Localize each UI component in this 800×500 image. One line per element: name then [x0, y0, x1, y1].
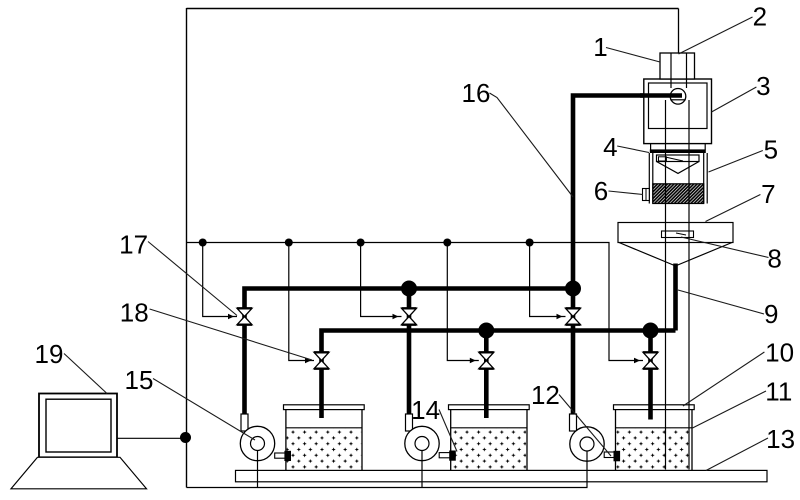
wire: control spur to valve V1 — [203, 243, 237, 317]
pump 15 (P1) — [240, 414, 291, 488]
svg-text:12: 12 — [531, 380, 560, 410]
pipe 16: riser and feed to nozzle — [571, 93, 678, 288]
svg-text:14: 14 — [411, 395, 440, 425]
wire: control spur to valve V5 — [447, 243, 479, 361]
leader 4 — [617, 146, 649, 153]
leader 16 — [490, 93, 574, 197]
node: pipe junction dots — [401, 281, 659, 339]
leader 13 — [706, 438, 768, 471]
pipe: branch to tank T3 — [648, 331, 653, 420]
valve V2 — [402, 308, 417, 324]
node: bus junction dots — [199, 239, 534, 247]
tab of item 6 — [643, 189, 650, 201]
valve V3 — [566, 308, 581, 324]
porous block 6 (hatched) — [653, 184, 704, 204]
stand column left — [665, 100, 667, 470]
wire: control spur to valve V4 — [289, 243, 314, 361]
svg-text:2: 2 — [753, 1, 767, 31]
pipe: branch to pump P2 — [407, 289, 412, 417]
TABLE 7 with slot 8 and funnel — [618, 223, 733, 243]
housing 3 outer — [644, 79, 712, 144]
block 1 (top cap) — [660, 53, 695, 79]
svg-text:16: 16 — [462, 78, 491, 108]
leader 9 — [678, 290, 764, 314]
svg-text:15: 15 — [125, 365, 154, 395]
svg-text:7: 7 — [761, 179, 775, 209]
leader 7 — [706, 195, 761, 222]
rod 2 guide lines — [671, 53, 687, 88]
cone under plate 4 — [657, 162, 700, 174]
tank T2 — [449, 405, 530, 471]
frame: left border — [186, 8, 188, 488]
svg-text:9: 9 — [764, 299, 778, 329]
svg-text:11: 11 — [765, 377, 792, 407]
leader 8 — [681, 237, 769, 258]
leader 12 — [559, 395, 611, 457]
svg-text:5: 5 — [764, 134, 778, 164]
housing 3 inner — [649, 83, 708, 129]
wire: control spur to valve V2 — [361, 243, 402, 317]
plate 4 — [657, 155, 700, 162]
wire: valve control bus — [187, 243, 644, 361]
svg-text:18: 18 — [120, 298, 149, 328]
valve V6 — [643, 352, 658, 368]
pipe: return manifold with branch to tank T1 — [322, 331, 676, 419]
svg-text:6: 6 — [594, 176, 608, 206]
tank T3 (items 10,11) — [614, 405, 695, 471]
svg-text:4: 4 — [603, 132, 617, 162]
leader 6 — [609, 191, 644, 195]
wire: rod from top border to hoist block — [678, 9, 680, 58]
pipe: suction manifold with branch to pump 15 — [245, 289, 574, 417]
vessel 5 lid band — [650, 149, 706, 153]
BASEPLATE 13 — [236, 470, 768, 481]
funnel cone — [619, 243, 732, 266]
pipe: feed tip entering nozzle — [640, 93, 682, 98]
pump 12 (P3) — [570, 414, 621, 488]
tank 10/11 group T1: lid — [284, 405, 365, 471]
vessel 5 walls — [649, 153, 707, 204]
leader 19 — [64, 354, 107, 394]
node: dot on left border — [180, 432, 191, 443]
COMPUTER 19 — [11, 394, 147, 489]
leader 3 — [712, 87, 757, 112]
leader 17 — [148, 242, 237, 316]
valve 17 (V1) — [237, 308, 252, 324]
svg-text:19: 19 — [35, 339, 64, 369]
svg-text:10: 10 — [765, 338, 794, 368]
valve 18 (V4) — [314, 352, 329, 368]
frame: bottom signal line — [187, 487, 588, 489]
valve edge caps — [237, 308, 658, 368]
frame: top border — [187, 8, 679, 10]
leader 10 — [683, 352, 764, 406]
leader 15 — [153, 379, 255, 441]
neck between housing 3 and vessel 5 — [651, 144, 706, 150]
pipe 9: funnel outlet riser — [673, 264, 678, 331]
nozzle ball — [670, 89, 686, 105]
valve V5 — [479, 352, 494, 368]
leader 5 — [709, 151, 763, 173]
leader 18 — [150, 309, 312, 360]
leader 1 — [606, 48, 660, 63]
leader 14 — [439, 410, 457, 452]
leader 11 — [693, 391, 767, 428]
svg-text:1: 1 — [593, 32, 607, 62]
wire: computer to bus — [117, 437, 187, 439]
wire: control spur to valve V3 — [530, 243, 566, 317]
svg-text:8: 8 — [767, 244, 781, 274]
svg-text:13: 13 — [766, 424, 795, 454]
pipe: branch to tank T2 — [484, 331, 489, 419]
pipe: branch to pump P3 — [571, 289, 576, 417]
leader 2 — [679, 17, 753, 54]
stand column right — [688, 100, 690, 470]
pump 14 (P2) — [405, 414, 456, 488]
svg-text:17: 17 — [119, 229, 148, 259]
svg-text:3: 3 — [756, 71, 770, 101]
slot 8 — [662, 231, 694, 238]
arrow marks at valve inlets — [228, 314, 640, 364]
